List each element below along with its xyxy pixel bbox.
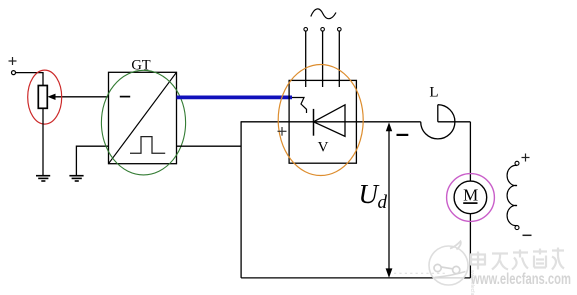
svg-text:U: U <box>359 179 380 209</box>
AC source terminals and wires <box>304 28 341 88</box>
label V <box>318 140 329 156</box>
resistor RP potentiometer <box>38 86 47 109</box>
svg-text:L: L <box>429 85 438 101</box>
watermark url text <box>469 270 571 295</box>
wire main horizontal through thyristor <box>241 121 421 123</box>
watermark CJK-like glyphs <box>470 248 564 270</box>
potentiometer wiper arrow wire to GT <box>48 94 109 100</box>
svg-text:d: d <box>378 192 388 213</box>
trigger unit GT box <box>109 72 177 163</box>
node plus terminal top-left <box>9 57 17 75</box>
watermark <box>394 241 468 285</box>
node plus label (anode side) <box>278 127 287 136</box>
ground (GT) <box>69 176 83 181</box>
thyristor V symbol <box>292 98 345 137</box>
wire GT output to left leg <box>177 145 242 147</box>
node minus label (field winding) <box>523 234 532 236</box>
AC source tilde <box>311 9 336 19</box>
wire potentiometer bottom to ground <box>42 108 44 175</box>
gate pulse wire (blue) GT to thyristor <box>177 96 293 100</box>
magenta highlight circle around motor <box>447 174 495 222</box>
orange highlight ellipse around thyristor <box>278 65 363 176</box>
red highlight ellipse around potentiometer <box>28 70 62 124</box>
motor M <box>454 181 487 214</box>
field winding coil <box>507 161 519 229</box>
wire GT lower-left to ground <box>76 146 108 175</box>
Ud measurement arrow <box>386 122 393 278</box>
label GT <box>131 58 150 74</box>
node minus label (cathode side) <box>397 134 409 136</box>
wire from terminal to potentiometer top <box>16 73 43 86</box>
wire right leg to motor <box>469 122 471 278</box>
svg-text:V: V <box>318 140 329 156</box>
thyristor rectifier box <box>289 80 356 163</box>
inductor L <box>421 105 471 139</box>
label L <box>429 85 438 101</box>
wire left leg vertical <box>240 121 242 278</box>
svg-text:M: M <box>463 185 478 204</box>
ground (potentiometer) <box>36 176 50 181</box>
node plus label (field winding) <box>522 154 530 162</box>
svg-text:www.elecfans.c: www.elecfans.c <box>469 270 475 295</box>
wire bottom rail <box>241 277 470 279</box>
label Ud <box>359 179 388 213</box>
green highlight ellipse around GT <box>101 70 185 175</box>
svg-text:www.elecfans.com: www.elecfans.com <box>470 271 571 288</box>
